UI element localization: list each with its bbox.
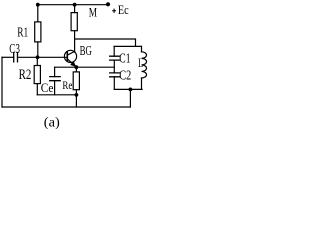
wire tank top <box>114 45 141 47</box>
resistor R2 <box>34 66 40 84</box>
wire R2 bottom lead <box>36 84 38 95</box>
svg-text:R2: R2 <box>19 67 32 83</box>
wire inductor top lead <box>141 46 143 51</box>
transistor BG emitter stroke <box>67 59 76 67</box>
transistor BG base bar <box>66 52 68 61</box>
svg-text:C3: C3 <box>9 42 20 57</box>
wire Re top lead <box>75 67 77 72</box>
svg-text:C2: C2 <box>119 69 131 84</box>
node emitter bottom junction <box>75 93 79 97</box>
wire C2 bottom lead <box>113 77 115 90</box>
inductor L <box>142 52 147 78</box>
wire base <box>18 56 68 58</box>
label + Ec <box>112 9 116 13</box>
capacitor C1 <box>110 56 120 60</box>
wire emitter node to C1-C2 junction <box>55 66 115 68</box>
wire R2 top lead <box>36 57 38 65</box>
wire C1-C2 junction column <box>113 60 115 73</box>
svg-text:M: M <box>89 5 98 20</box>
transistor BG collector stroke <box>67 51 74 55</box>
svg-text:L: L <box>138 55 143 70</box>
svg-text:Re: Re <box>62 80 72 92</box>
wire tank bottom <box>114 88 142 90</box>
wire emitter bottom drop <box>75 95 77 107</box>
wire collector resistor top lead <box>74 5 76 13</box>
node +Ec supply terminal <box>106 2 110 6</box>
wire Ce top lead <box>54 67 56 76</box>
svg-text:(a): (a) <box>44 114 60 129</box>
wire tank bottom drop to ground rail <box>129 89 131 107</box>
capacitor C3 <box>14 53 18 62</box>
wire R1 bottom lead to base node <box>37 42 39 57</box>
wire inductor bottom lead <box>141 78 143 89</box>
wire top rail <box>38 4 108 6</box>
node top-left junction <box>36 3 40 7</box>
wire emitter components bottom tie <box>37 94 76 96</box>
wire C1 top lead <box>113 46 115 56</box>
wire bottom ground rail <box>2 106 130 108</box>
wire R1 top lead <box>37 5 39 22</box>
resistor Re <box>73 72 79 90</box>
transistor BG emitter arrowhead <box>71 62 76 67</box>
capacitor Ce <box>50 77 60 81</box>
node base junction <box>36 55 40 59</box>
svg-text:Ec: Ec <box>118 2 129 17</box>
wire Ce bottom lead <box>54 81 56 95</box>
wire C3 left lead from left column <box>2 56 14 58</box>
svg-text:Ce: Ce <box>41 81 54 95</box>
node tank bottom junction <box>129 88 133 92</box>
wire collector resistor bottom to transistor collector <box>74 31 76 52</box>
wire left input column <box>1 57 3 107</box>
wire Re bottom lead <box>75 90 77 95</box>
resistor (collector, under M label) <box>71 13 77 31</box>
svg-text:C1: C1 <box>119 52 130 67</box>
node top rail junction to collector resistor <box>73 3 77 7</box>
node emitter junction <box>75 65 79 69</box>
resistor R1 <box>35 22 41 42</box>
transistor BG circle <box>64 50 76 62</box>
svg-text:R1: R1 <box>17 25 28 40</box>
svg-text:BG: BG <box>80 44 92 59</box>
wire collector branch to tank <box>75 39 136 46</box>
capacitor C2 <box>110 73 120 77</box>
